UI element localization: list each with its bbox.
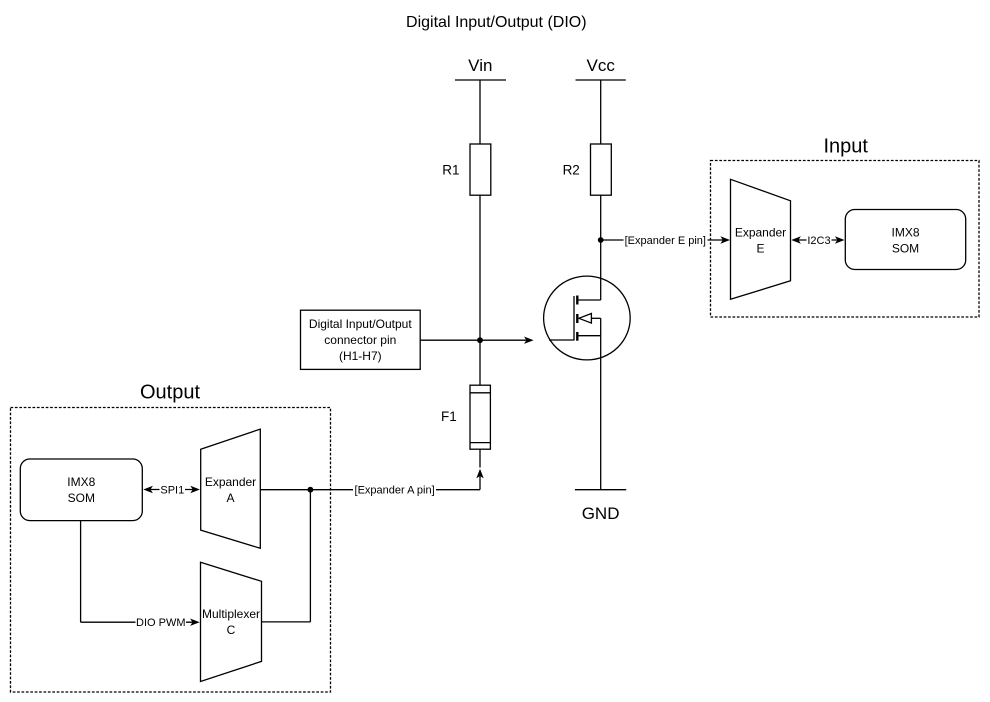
svg-text:SOM: SOM <box>68 491 95 505</box>
svg-text:E: E <box>756 241 764 255</box>
svg-text:Multiplexer: Multiplexer <box>202 607 260 621</box>
svg-text:A: A <box>226 491 234 505</box>
svg-text:R1: R1 <box>442 163 459 178</box>
svg-text:Expander: Expander <box>735 225 786 239</box>
svg-text:SOM: SOM <box>892 241 919 255</box>
svg-text:SPI1: SPI1 <box>160 484 184 496</box>
svg-text:Vcc: Vcc <box>587 56 616 75</box>
svg-text:F1: F1 <box>441 409 457 424</box>
svg-text:Input: Input <box>823 135 868 157</box>
svg-text:I2C3: I2C3 <box>807 235 830 247</box>
svg-text:GND: GND <box>582 504 620 523</box>
svg-text:connector pin: connector pin <box>324 333 396 347</box>
svg-text:Vin: Vin <box>468 56 492 75</box>
svg-text:[Expander A pin]: [Expander A pin] <box>355 485 435 497</box>
svg-text:Output: Output <box>140 381 200 403</box>
svg-text:Digital Input/Output (DIO): Digital Input/Output (DIO) <box>406 14 587 31</box>
svg-text:(H1-H7): (H1-H7) <box>339 349 382 363</box>
svg-text:C: C <box>227 623 236 637</box>
svg-text:IMX8: IMX8 <box>891 225 919 239</box>
svg-text:[Expander E pin]: [Expander E pin] <box>625 235 706 247</box>
svg-text:Digital Input/Output: Digital Input/Output <box>309 317 412 331</box>
svg-text:R2: R2 <box>563 163 580 178</box>
svg-text:DIO PWM: DIO PWM <box>136 617 186 629</box>
svg-text:IMX8: IMX8 <box>67 475 95 489</box>
svg-text:Expander: Expander <box>205 475 256 489</box>
